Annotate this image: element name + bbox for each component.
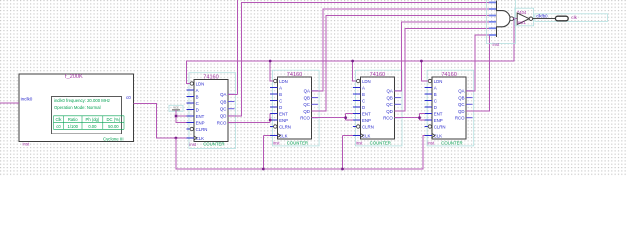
svg-text:QC: QC bbox=[458, 102, 465, 107]
NAND6 U5 output bubble bbox=[510, 17, 514, 21]
junction RCO3 bbox=[418, 116, 421, 119]
svg-text:ENP: ENP bbox=[196, 120, 205, 125]
wire LDN riser bbox=[353, 61, 357, 81]
svg-text:QD: QD bbox=[303, 109, 310, 114]
U2 pin QD stub bbox=[312, 110, 319, 112]
svg-text:inclk0 frequency: 20.000 MHz: inclk0 frequency: 20.000 MHz bbox=[54, 98, 110, 103]
U2 pin QC stub bbox=[312, 103, 319, 105]
svg-text:Clk: Clk bbox=[55, 117, 62, 122]
junction LDN bus bbox=[269, 60, 272, 63]
svg-text:QB: QB bbox=[220, 99, 226, 104]
svg-text:clkfb0: clkfb0 bbox=[536, 14, 548, 19]
counter U4 74160 body bbox=[432, 77, 466, 139]
PLL U_pll outer box bbox=[19, 74, 134, 142]
counter U4 74160 symbol boundary bbox=[427, 70, 474, 146]
svg-text:vcc: vcc bbox=[173, 106, 179, 110]
svg-text:Cyclone III: Cyclone III bbox=[103, 137, 124, 142]
PLL table bbox=[54, 115, 125, 117]
svg-text:DC (%): DC (%) bbox=[107, 117, 121, 122]
svg-text:QA: QA bbox=[220, 92, 226, 97]
U4 pin C stub bbox=[425, 100, 433, 102]
svg-text:QD: QD bbox=[386, 109, 393, 114]
svg-text:c0: c0 bbox=[56, 124, 61, 129]
U1 pin QB stub bbox=[228, 101, 235, 103]
U3 CLK edge marker bbox=[360, 134, 363, 138]
wire LDN riser bbox=[270, 61, 273, 81]
svg-text:B: B bbox=[279, 92, 282, 97]
svg-text:C: C bbox=[279, 98, 282, 103]
junction RCO2 bbox=[344, 116, 347, 119]
svg-text:CLRN: CLRN bbox=[434, 124, 446, 129]
svg-text:LDN: LDN bbox=[434, 79, 443, 84]
U1 CLK edge marker bbox=[194, 136, 197, 140]
svg-text:inst: inst bbox=[356, 141, 363, 146]
U1 pin ENP stub bbox=[187, 122, 195, 124]
svg-text:74160: 74160 bbox=[441, 72, 457, 78]
NAND6 U5 input bar bbox=[495, 1, 497, 38]
U2 pin A stub bbox=[270, 87, 278, 89]
U4 pin ENP stub bbox=[425, 119, 433, 121]
U1 pin ENT stub bbox=[187, 115, 195, 117]
svg-text:inst1: inst1 bbox=[517, 20, 527, 25]
svg-text:Ratio: Ratio bbox=[68, 117, 78, 122]
U4 pin B stub bbox=[425, 93, 433, 95]
svg-text:50.00: 50.00 bbox=[108, 124, 119, 129]
U3 pin QB stub bbox=[394, 97, 401, 99]
svg-text:Ph (dg): Ph (dg) bbox=[86, 117, 100, 122]
U3 pin RCO stub bbox=[394, 117, 401, 119]
svg-text:QC: QC bbox=[303, 102, 310, 107]
U2 pin ENT stub bbox=[270, 113, 278, 115]
wire RCO3 link bbox=[394, 117, 419, 119]
svg-text:D: D bbox=[279, 105, 282, 110]
svg-text:C: C bbox=[196, 101, 199, 106]
NOT gate boundary bbox=[515, 8, 534, 26]
U1 pin A stub bbox=[187, 89, 195, 91]
svg-text:A: A bbox=[434, 85, 437, 90]
svg-text:inst: inst bbox=[428, 141, 435, 146]
U4 pin QA stub bbox=[466, 90, 473, 92]
svg-text:1/100: 1/100 bbox=[68, 124, 79, 129]
svg-text:clk: clk bbox=[571, 15, 577, 20]
junction VCC ENT1 bbox=[175, 115, 178, 118]
U4 pin LDN stub+bubble bbox=[425, 80, 428, 82]
U3 pin ENT stub bbox=[353, 113, 361, 115]
U1 pin QC stub bbox=[228, 108, 235, 110]
wire QD1 to NAND in1 bbox=[228, 2, 489, 116]
U3 pin CLK stub bbox=[353, 135, 361, 137]
wire QD2 to NAND in3 bbox=[312, 16, 489, 112]
svg-text:LDN: LDN bbox=[196, 81, 205, 86]
U2 pin RCO stub bbox=[312, 117, 319, 119]
U3 pin CLRN stub+bubble bbox=[353, 126, 356, 128]
wire into ENP bbox=[346, 119, 353, 121]
U4 pin RCO stub bbox=[466, 117, 473, 119]
svg-text:QA: QA bbox=[387, 89, 393, 94]
U4 pin ENT stub bbox=[425, 113, 433, 115]
wire QA3 to NAND in4 bbox=[394, 22, 489, 91]
junction LDN bus bbox=[420, 60, 423, 63]
svg-text:74160: 74160 bbox=[203, 74, 219, 80]
svg-text:ENT: ENT bbox=[362, 111, 371, 116]
NAND6 U5 input stubs bbox=[489, 1, 497, 3]
svg-text:ENT: ENT bbox=[196, 114, 205, 119]
svg-text:LDN: LDN bbox=[279, 79, 288, 84]
U2 pin C stub bbox=[270, 100, 278, 102]
wire RCO1 link bbox=[228, 122, 270, 124]
svg-text:RCO: RCO bbox=[455, 115, 465, 120]
svg-text:A: A bbox=[362, 85, 365, 90]
output pin symbol bbox=[555, 16, 568, 21]
svg-text:RCO: RCO bbox=[300, 115, 310, 120]
U1 pin CLRN stub+bubble bbox=[187, 128, 190, 130]
U3 pin QC stub bbox=[394, 103, 401, 105]
U2 pin QA stub bbox=[312, 90, 319, 92]
U4 pin CLRN stub+bubble bbox=[425, 126, 428, 128]
counter U3 74160 body bbox=[360, 77, 394, 139]
wire c0 to CLK1 bbox=[134, 103, 188, 138]
svg-text:ENP: ENP bbox=[362, 118, 371, 123]
U2 pin D stub bbox=[270, 106, 278, 108]
wire LDN riser bbox=[421, 61, 428, 81]
junction RCO1 bbox=[269, 119, 272, 122]
wire NOT out to output pin bbox=[533, 18, 556, 20]
svg-text:inclk0: inclk0 bbox=[21, 96, 33, 101]
U3 pin LDN stub+bubble bbox=[353, 80, 356, 82]
svg-text:74160: 74160 bbox=[287, 72, 303, 78]
junction NAND output bbox=[513, 17, 516, 20]
wire into ENT bbox=[420, 113, 425, 115]
svg-text:QD: QD bbox=[220, 114, 227, 119]
U3 pin D stub bbox=[353, 106, 361, 108]
svg-text:D: D bbox=[362, 105, 365, 110]
U1 pin D stub bbox=[187, 109, 195, 111]
wire into CLK2 bbox=[263, 135, 277, 137]
output pin boundary bbox=[535, 14, 608, 22]
U4 pin QC stub bbox=[466, 103, 473, 105]
svg-text:C: C bbox=[434, 98, 437, 103]
counter U2 74160 symbol boundary bbox=[273, 70, 320, 146]
svg-text:ENT: ENT bbox=[279, 111, 288, 116]
svg-text:c0: c0 bbox=[126, 95, 131, 100]
U2 pin QB stub bbox=[312, 97, 319, 99]
svg-text:COUNTER: COUNTER bbox=[287, 140, 308, 145]
wire clock bottom bus to CLK4 bbox=[176, 136, 432, 170]
U4 pin CLK stub bbox=[425, 135, 433, 137]
wire QD4 riser to NAND in6 bbox=[466, 35, 489, 111]
U4 CLK edge marker bbox=[432, 134, 435, 138]
U1 pin QA stub bbox=[228, 93, 235, 95]
U2 pin B stub bbox=[270, 93, 278, 95]
wire link vertical ENT/ENP bbox=[269, 114, 271, 123]
svg-text:Operation Mode: Normal: Operation Mode: Normal bbox=[54, 105, 101, 110]
svg-text:RCO: RCO bbox=[217, 120, 227, 125]
U2 pin LDN stub+bubble bbox=[270, 80, 273, 82]
wire QA4 to NAND in6 bbox=[466, 35, 489, 91]
svg-text:COUNTER: COUNTER bbox=[203, 142, 224, 147]
U4 pin D stub bbox=[425, 106, 433, 108]
U2 CLK edge marker bbox=[278, 134, 281, 138]
svg-text:A: A bbox=[196, 88, 199, 93]
U3 pin B stub bbox=[353, 93, 361, 95]
svg-text:COUNTER: COUNTER bbox=[370, 140, 391, 145]
svg-text:QD: QD bbox=[458, 109, 465, 114]
U2 pin CLK stub bbox=[270, 135, 278, 137]
svg-text:QA: QA bbox=[458, 89, 464, 94]
junction clk net at CLK1 bbox=[175, 137, 178, 140]
wire QD3 to NAND in5 bbox=[394, 28, 489, 111]
svg-text:ENT: ENT bbox=[434, 111, 443, 116]
svg-text:B: B bbox=[362, 92, 365, 97]
U1 pin QD stub bbox=[228, 115, 235, 117]
svg-text:C: C bbox=[362, 98, 365, 103]
NOT gate U6 triangle bbox=[517, 13, 529, 24]
wire link vertical ENT/ENP bbox=[345, 114, 347, 121]
svg-text:A: A bbox=[279, 85, 282, 90]
svg-text:inst: inst bbox=[493, 42, 500, 47]
junction clk bus c2 bbox=[262, 168, 265, 171]
U2 pin ENP stub bbox=[270, 119, 278, 121]
svg-text:B: B bbox=[434, 92, 437, 97]
svg-text:inst: inst bbox=[273, 141, 280, 146]
svg-text:0.00: 0.00 bbox=[88, 124, 97, 129]
wire into ENP bbox=[420, 119, 425, 121]
svg-text:inst: inst bbox=[189, 142, 196, 147]
svg-text:CLRN: CLRN bbox=[196, 127, 208, 132]
svg-text:RCO: RCO bbox=[383, 115, 393, 120]
wire QA2 to NAND in2 bbox=[312, 9, 489, 91]
U3 pin C stub bbox=[353, 100, 361, 102]
wire RCO2 link bbox=[312, 117, 346, 119]
wire inclk0 from left edge bbox=[0, 102, 19, 104]
wire NAND out to NOT in bbox=[514, 18, 518, 20]
NAND6 U5 symbol boundary bbox=[487, 0, 516, 44]
counter U1 74160 symbol boundary bbox=[189, 73, 236, 149]
wire NAND out feedback to LDN1 bbox=[186, 19, 514, 84]
junction clk bus c3 bbox=[341, 168, 344, 171]
U4 pin A stub bbox=[425, 87, 433, 89]
svg-text:LDN: LDN bbox=[362, 79, 371, 84]
svg-text:QB: QB bbox=[304, 95, 310, 100]
U2 pin CLRN stub+bubble bbox=[270, 126, 273, 128]
U1 pin C stub bbox=[187, 102, 195, 104]
U4 pin QB stub bbox=[466, 97, 473, 99]
svg-text:QA: QA bbox=[304, 89, 310, 94]
counter U3 74160 symbol boundary bbox=[355, 70, 402, 146]
svg-text:COUNTER: COUNTER bbox=[441, 140, 462, 145]
U3 pin A stub bbox=[353, 87, 361, 89]
wire into ENP bbox=[269, 119, 271, 121]
counter U2 74160 body bbox=[278, 77, 312, 139]
svg-text:inst: inst bbox=[23, 141, 30, 146]
U3 pin ENP stub bbox=[353, 119, 361, 121]
wire QA1 riser off top bbox=[237, 0, 239, 94]
wire into ENT bbox=[346, 113, 353, 115]
counter U1 74160 body bbox=[194, 80, 228, 142]
junction LDN bus bbox=[351, 60, 354, 63]
svg-text:QC: QC bbox=[386, 102, 393, 107]
svg-text:f_200K: f_200K bbox=[65, 74, 83, 80]
wire clk riser to CLK2 bbox=[262, 136, 264, 170]
svg-text:D: D bbox=[434, 105, 437, 110]
svg-text:QB: QB bbox=[458, 95, 464, 100]
svg-text:D: D bbox=[196, 107, 199, 112]
svg-text:74160: 74160 bbox=[370, 72, 386, 78]
wire VCC to ENP1 bbox=[176, 110, 187, 123]
NAND6 U5 gate body bbox=[496, 11, 510, 27]
wire into CLK3 bbox=[343, 135, 361, 137]
svg-text:CLRN: CLRN bbox=[279, 124, 291, 129]
wire into ENT bbox=[269, 113, 271, 115]
svg-text:B: B bbox=[196, 94, 199, 99]
U3 pin QA stub bbox=[394, 90, 401, 92]
wire QA1 bbox=[228, 93, 238, 95]
U4 pin QD stub bbox=[466, 110, 473, 112]
PLL inner info box bbox=[52, 97, 122, 134]
U3 pin QD stub bbox=[394, 110, 401, 112]
NOT gate U6 bubble bbox=[529, 17, 532, 20]
svg-text:QC: QC bbox=[220, 106, 227, 111]
U1 pin RCO stub bbox=[228, 122, 235, 124]
wire link vertical ENT/ENP bbox=[419, 114, 421, 121]
U1 pin LDN stub+bubble bbox=[187, 83, 190, 85]
wire VCC to ENT1 bbox=[176, 115, 187, 117]
svg-text:CLRN: CLRN bbox=[362, 124, 374, 129]
svg-text:ENP: ENP bbox=[434, 118, 443, 123]
wire clk riser to CLK3 bbox=[342, 136, 344, 170]
U1 pin CLK stub bbox=[187, 137, 195, 139]
VCC symbol bbox=[169, 105, 183, 111]
svg-text:QB: QB bbox=[387, 95, 393, 100]
svg-text:ENP: ENP bbox=[279, 118, 288, 123]
U1 pin B stub bbox=[187, 96, 195, 98]
